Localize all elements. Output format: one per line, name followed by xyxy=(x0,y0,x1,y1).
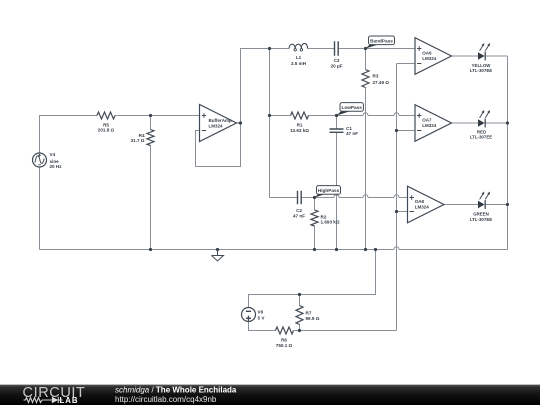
wire: OA8 output to green LED to right rail xyxy=(444,204,508,206)
svg-text:BufferAmp: BufferAmp xyxy=(209,118,233,123)
svg-text:LM324: LM324 xyxy=(422,123,437,128)
inductor L1 xyxy=(289,43,308,48)
op-amp OA6 xyxy=(415,38,452,75)
svg-text:V4: V4 xyxy=(50,152,56,157)
svg-text:13.63 kΩ: 13.63 kΩ xyxy=(290,128,309,133)
svg-text:R3: R3 xyxy=(373,73,379,78)
node: right rail red xyxy=(506,121,509,124)
svg-text:27.49 Ω: 27.49 Ω xyxy=(373,80,390,85)
svg-text:201.8 Ω: 201.8 Ω xyxy=(98,128,115,133)
LED D yellow xyxy=(478,43,490,60)
svg-text:R6: R6 xyxy=(281,338,287,343)
op-amp OA8 xyxy=(408,186,445,223)
svg-text:R7: R7 xyxy=(306,310,312,315)
node: top row / vertical B xyxy=(268,47,271,50)
svg-text:LTL-307EE: LTL-307EE xyxy=(470,217,492,222)
svg-text:5 V: 5 V xyxy=(258,315,266,320)
svg-text:C3: C3 xyxy=(334,58,340,63)
svg-text:R5: R5 xyxy=(103,122,109,127)
wire: HighPass hop over C1 vertical xyxy=(334,195,339,198)
capacitor C1 xyxy=(330,129,344,132)
wire: OA6 output to yellow LED to right rail xyxy=(452,55,508,57)
wire: C1 vertical LowPass node to rail xyxy=(336,116,338,250)
wire: BufferAmp output up to top row and right to junction B xyxy=(241,49,270,124)
wire: R3 vertical BandPass node to rail xyxy=(365,49,367,250)
svg-text:2.5 mH: 2.5 mH xyxy=(291,61,307,66)
wire: V4 bottom down to ground rail xyxy=(39,167,41,250)
svg-text:http://circuitlab.com/cq4x9nb: http://circuitlab.com/cq4x9nb xyxy=(115,395,217,404)
wire: rail hop over ref vertical xyxy=(394,247,399,250)
node: LowPass xyxy=(335,114,338,117)
logo resistor zigzag and diode xyxy=(24,397,63,403)
svg-text:L1: L1 xyxy=(296,55,302,60)
net flag HighPass xyxy=(315,186,341,198)
svg-text:LowPass: LowPass xyxy=(342,105,363,110)
wire: ground rail xyxy=(40,249,508,251)
capacitor C3 xyxy=(335,41,339,56)
capacitor C2 xyxy=(298,191,302,204)
svg-text:HighPass: HighPass xyxy=(318,188,340,193)
svg-text:750.1 Ω: 750.1 Ω xyxy=(276,343,293,348)
svg-text:LTL-307EE: LTL-307EE xyxy=(470,135,492,140)
ground xyxy=(212,250,224,262)
node: right rail green xyxy=(506,203,509,206)
wire: OA8 minus stub xyxy=(397,211,408,213)
wire: V4 top to R5 to node A to BufferAmp + xyxy=(40,116,200,154)
wire: top row junction B to L1, C3, BandPass node, to OA6 + xyxy=(270,48,416,50)
wire: R7 vertical xyxy=(299,295,301,331)
node: ref OA8 minus xyxy=(395,210,398,213)
resistor R4 xyxy=(147,130,154,146)
svg-text:LTL-307EE: LTL-307EE xyxy=(470,68,492,73)
svg-text:47 nF: 47 nF xyxy=(346,131,358,136)
voltage source V6 xyxy=(242,308,256,322)
svg-text:LAB: LAB xyxy=(60,396,79,405)
node: rail R4 xyxy=(149,248,152,251)
wire: HighPass hop over ref vertical xyxy=(394,195,399,198)
node: rail V6 tap xyxy=(374,248,377,251)
node: R7 top xyxy=(298,293,301,296)
svg-text:OA7: OA7 xyxy=(422,118,432,123)
LED D red xyxy=(478,110,490,127)
wire: OA7 minus stub xyxy=(397,130,416,132)
resistor R1 xyxy=(291,112,309,119)
resistor R3 xyxy=(362,70,369,88)
wire: OA6 minus stub xyxy=(397,63,416,65)
resistor R2 xyxy=(311,210,318,226)
resistor R6 xyxy=(276,327,294,334)
wire: V6 bottom to R6 to node X xyxy=(249,322,397,331)
svg-text:99.9 Ω: 99.9 Ω xyxy=(306,316,320,321)
wire: R4 vertical xyxy=(150,116,152,250)
wire: reference vertical to minus inputs xyxy=(396,64,398,331)
svg-text:47 nF: 47 nF xyxy=(293,213,305,218)
svg-text:LM324: LM324 xyxy=(209,124,224,129)
wire: HighPass row to C2 to node, hops, to OA8 + xyxy=(270,197,408,199)
svg-text:31.7 Ω: 31.7 Ω xyxy=(131,138,145,143)
node: rail ground xyxy=(216,248,219,251)
svg-text:LM324: LM324 xyxy=(415,205,430,210)
svg-text:LM324: LM324 xyxy=(422,56,437,61)
svg-text:OA6: OA6 xyxy=(422,51,432,56)
node: rail R3 xyxy=(364,248,367,251)
node: BufferAmp output xyxy=(239,121,242,124)
wire: OA7 output to red LED to right rail xyxy=(452,122,508,124)
wire: BufferAmp feedback loop xyxy=(196,123,241,167)
svg-text:OA8: OA8 xyxy=(415,199,425,204)
wire: LowPass hop over R3 vertical xyxy=(363,113,368,116)
node: BandPass xyxy=(364,47,367,50)
svg-text:20 Hz: 20 Hz xyxy=(50,164,63,169)
svg-text:BandPass: BandPass xyxy=(370,38,393,43)
wire: HighPass hop over R3 vertical xyxy=(363,195,368,198)
wire: right rail xyxy=(507,56,509,250)
wire: rail tap down to V6 top / R7 top xyxy=(249,250,376,308)
node: ref OA7 minus xyxy=(395,129,398,132)
wire: LowPass row junction B to R1 to node, hops, to OA7 + xyxy=(270,115,416,117)
node: rail C1 xyxy=(335,248,338,251)
resistor R5 xyxy=(97,112,115,119)
node: HighPass xyxy=(313,196,316,199)
wire: vertical B from top row to HighPass row xyxy=(269,49,271,198)
svg-text:C2: C2 xyxy=(296,208,302,213)
wire: R2 vertical HighPass node to rail xyxy=(314,198,316,250)
op-amp U BufferAmp xyxy=(200,105,237,142)
LED D green xyxy=(478,192,490,209)
node: R5/R4 junction xyxy=(149,114,152,117)
svg-text:V6: V6 xyxy=(258,310,264,315)
net flag BandPass xyxy=(366,36,395,49)
node: rail R2 xyxy=(313,248,316,251)
svg-text:20 µF: 20 µF xyxy=(331,64,343,69)
svg-text:schmidga / The Whole Enchilada: schmidga / The Whole Enchilada xyxy=(115,386,237,395)
node: R7 bottom xyxy=(298,329,301,332)
op-amp OA7 xyxy=(415,105,452,142)
net flag LowPass xyxy=(337,103,364,116)
wire: LowPass hop over ref vertical xyxy=(394,113,399,116)
voltage source V4 xyxy=(33,153,47,167)
resistor R7 xyxy=(296,306,303,325)
svg-text:1.693 kΩ: 1.693 kΩ xyxy=(321,220,340,225)
node: LowPass row / vertical B xyxy=(268,114,271,117)
